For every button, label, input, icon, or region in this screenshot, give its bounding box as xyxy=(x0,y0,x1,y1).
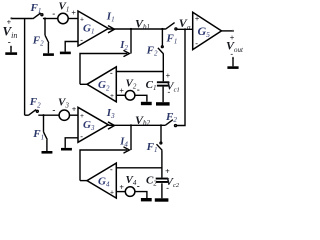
op-amp G4 xyxy=(87,163,116,198)
wire Va down to lower F2 xyxy=(177,29,185,125)
svg-text:+: + xyxy=(72,105,77,114)
svg-text:-: - xyxy=(52,105,55,115)
ground (V4) xyxy=(141,198,152,201)
arrow I3 xyxy=(109,122,115,129)
wire feedback G2 out xyxy=(80,54,127,85)
ground (Vout) xyxy=(232,57,234,59)
voltage source V4 xyxy=(125,187,135,197)
node F1 drop from rail xyxy=(160,124,162,126)
wire output rail Vb1 xyxy=(108,28,165,30)
switch F2 (lower right series) xyxy=(165,120,173,126)
wire Va xyxy=(177,28,193,30)
node Va xyxy=(184,28,186,30)
arrow I2 xyxy=(124,51,129,57)
svg-text:+: + xyxy=(119,87,124,96)
wire G4 minus to C2 top xyxy=(116,167,162,169)
node Vin- terminal xyxy=(10,46,12,48)
op-amp G1 xyxy=(78,11,108,46)
ground (below Vin-) xyxy=(10,47,12,53)
wire after F1 xyxy=(43,18,58,20)
svg-text:+: + xyxy=(110,92,114,100)
switch F2 (upper shunt) xyxy=(44,19,46,36)
ground (G1 minus) xyxy=(60,52,71,55)
wire G4 plus to V4 xyxy=(116,191,125,193)
wire G2 minus to C1 top xyxy=(116,71,163,73)
svg-text:+: + xyxy=(166,72,171,81)
svg-text:-: - xyxy=(110,69,113,78)
switch F1 (upper right series) xyxy=(165,23,174,30)
svg-text:-: - xyxy=(80,132,83,141)
op-amp G5 xyxy=(193,12,222,49)
ground (V2) xyxy=(141,102,152,105)
svg-text:-: - xyxy=(52,9,55,19)
wire G1 minus input to ground xyxy=(65,42,78,52)
svg-text:+: + xyxy=(195,15,200,24)
wire G2 plus to V2 xyxy=(116,94,125,96)
ground (G3 minus) xyxy=(61,148,72,151)
node Vb2 xyxy=(130,124,132,126)
node Vout terminal xyxy=(232,30,234,32)
wire Vb1 down to feedback xyxy=(130,29,132,54)
svg-text:-: - xyxy=(110,165,113,174)
svg-text:-: - xyxy=(168,87,171,96)
arrow I1 xyxy=(109,26,115,33)
switch F2 (upper right) xyxy=(161,29,163,46)
svg-text:-: - xyxy=(195,39,198,48)
capacitor C1 xyxy=(157,81,169,83)
wire V3 to G3 xyxy=(70,114,79,116)
wire F1 to C2 xyxy=(161,150,163,177)
wire Vb2 down to feedback xyxy=(130,125,132,150)
node junction F1 drop xyxy=(42,114,44,116)
switch F1 (lower shunt) xyxy=(43,115,45,132)
wire feedback G4 out xyxy=(80,150,127,181)
svg-text:-: - xyxy=(137,85,140,95)
wire input rail left xyxy=(11,18,32,20)
ground (C2) xyxy=(155,198,169,201)
svg-text:+: + xyxy=(165,167,170,176)
voltage source V2 xyxy=(125,91,135,101)
svg-text:-: - xyxy=(8,37,11,47)
capacitor C2 xyxy=(156,178,168,180)
node Vb1 xyxy=(130,28,132,30)
switch F1 (lower right) xyxy=(160,125,162,142)
wire V2 to ground xyxy=(135,95,147,102)
wire F2 to C1 xyxy=(162,54,164,81)
wire G3 minus input to ground xyxy=(65,138,78,148)
wire V4 to ground xyxy=(135,192,147,198)
node F2 drop from rail xyxy=(161,28,163,30)
node Vin+ terminal xyxy=(10,17,12,19)
ground (below F1) xyxy=(42,151,53,154)
ground (C1) xyxy=(156,102,170,105)
voltage source V3 xyxy=(59,110,69,120)
svg-text:+: + xyxy=(119,183,124,192)
op-amp G2 xyxy=(87,67,116,102)
wire after F2 xyxy=(38,114,59,116)
svg-text:-: - xyxy=(137,181,140,191)
svg-text:-: - xyxy=(166,184,169,193)
svg-text:+: + xyxy=(71,9,76,18)
svg-text:+: + xyxy=(110,188,114,196)
wire V1 to G1 xyxy=(68,18,78,20)
op-amp G3 xyxy=(78,107,108,142)
svg-text:-: - xyxy=(80,36,83,45)
wire output rail Vb2 xyxy=(108,124,165,126)
wire lower rail corner xyxy=(25,114,29,116)
wire G5 output xyxy=(222,30,233,32)
wire branch down to lower rail xyxy=(24,19,26,116)
arrow I4 xyxy=(124,147,129,153)
ground (below F2) xyxy=(43,53,54,56)
voltage source V1 xyxy=(58,13,68,23)
node junction F2 drop xyxy=(44,17,46,19)
